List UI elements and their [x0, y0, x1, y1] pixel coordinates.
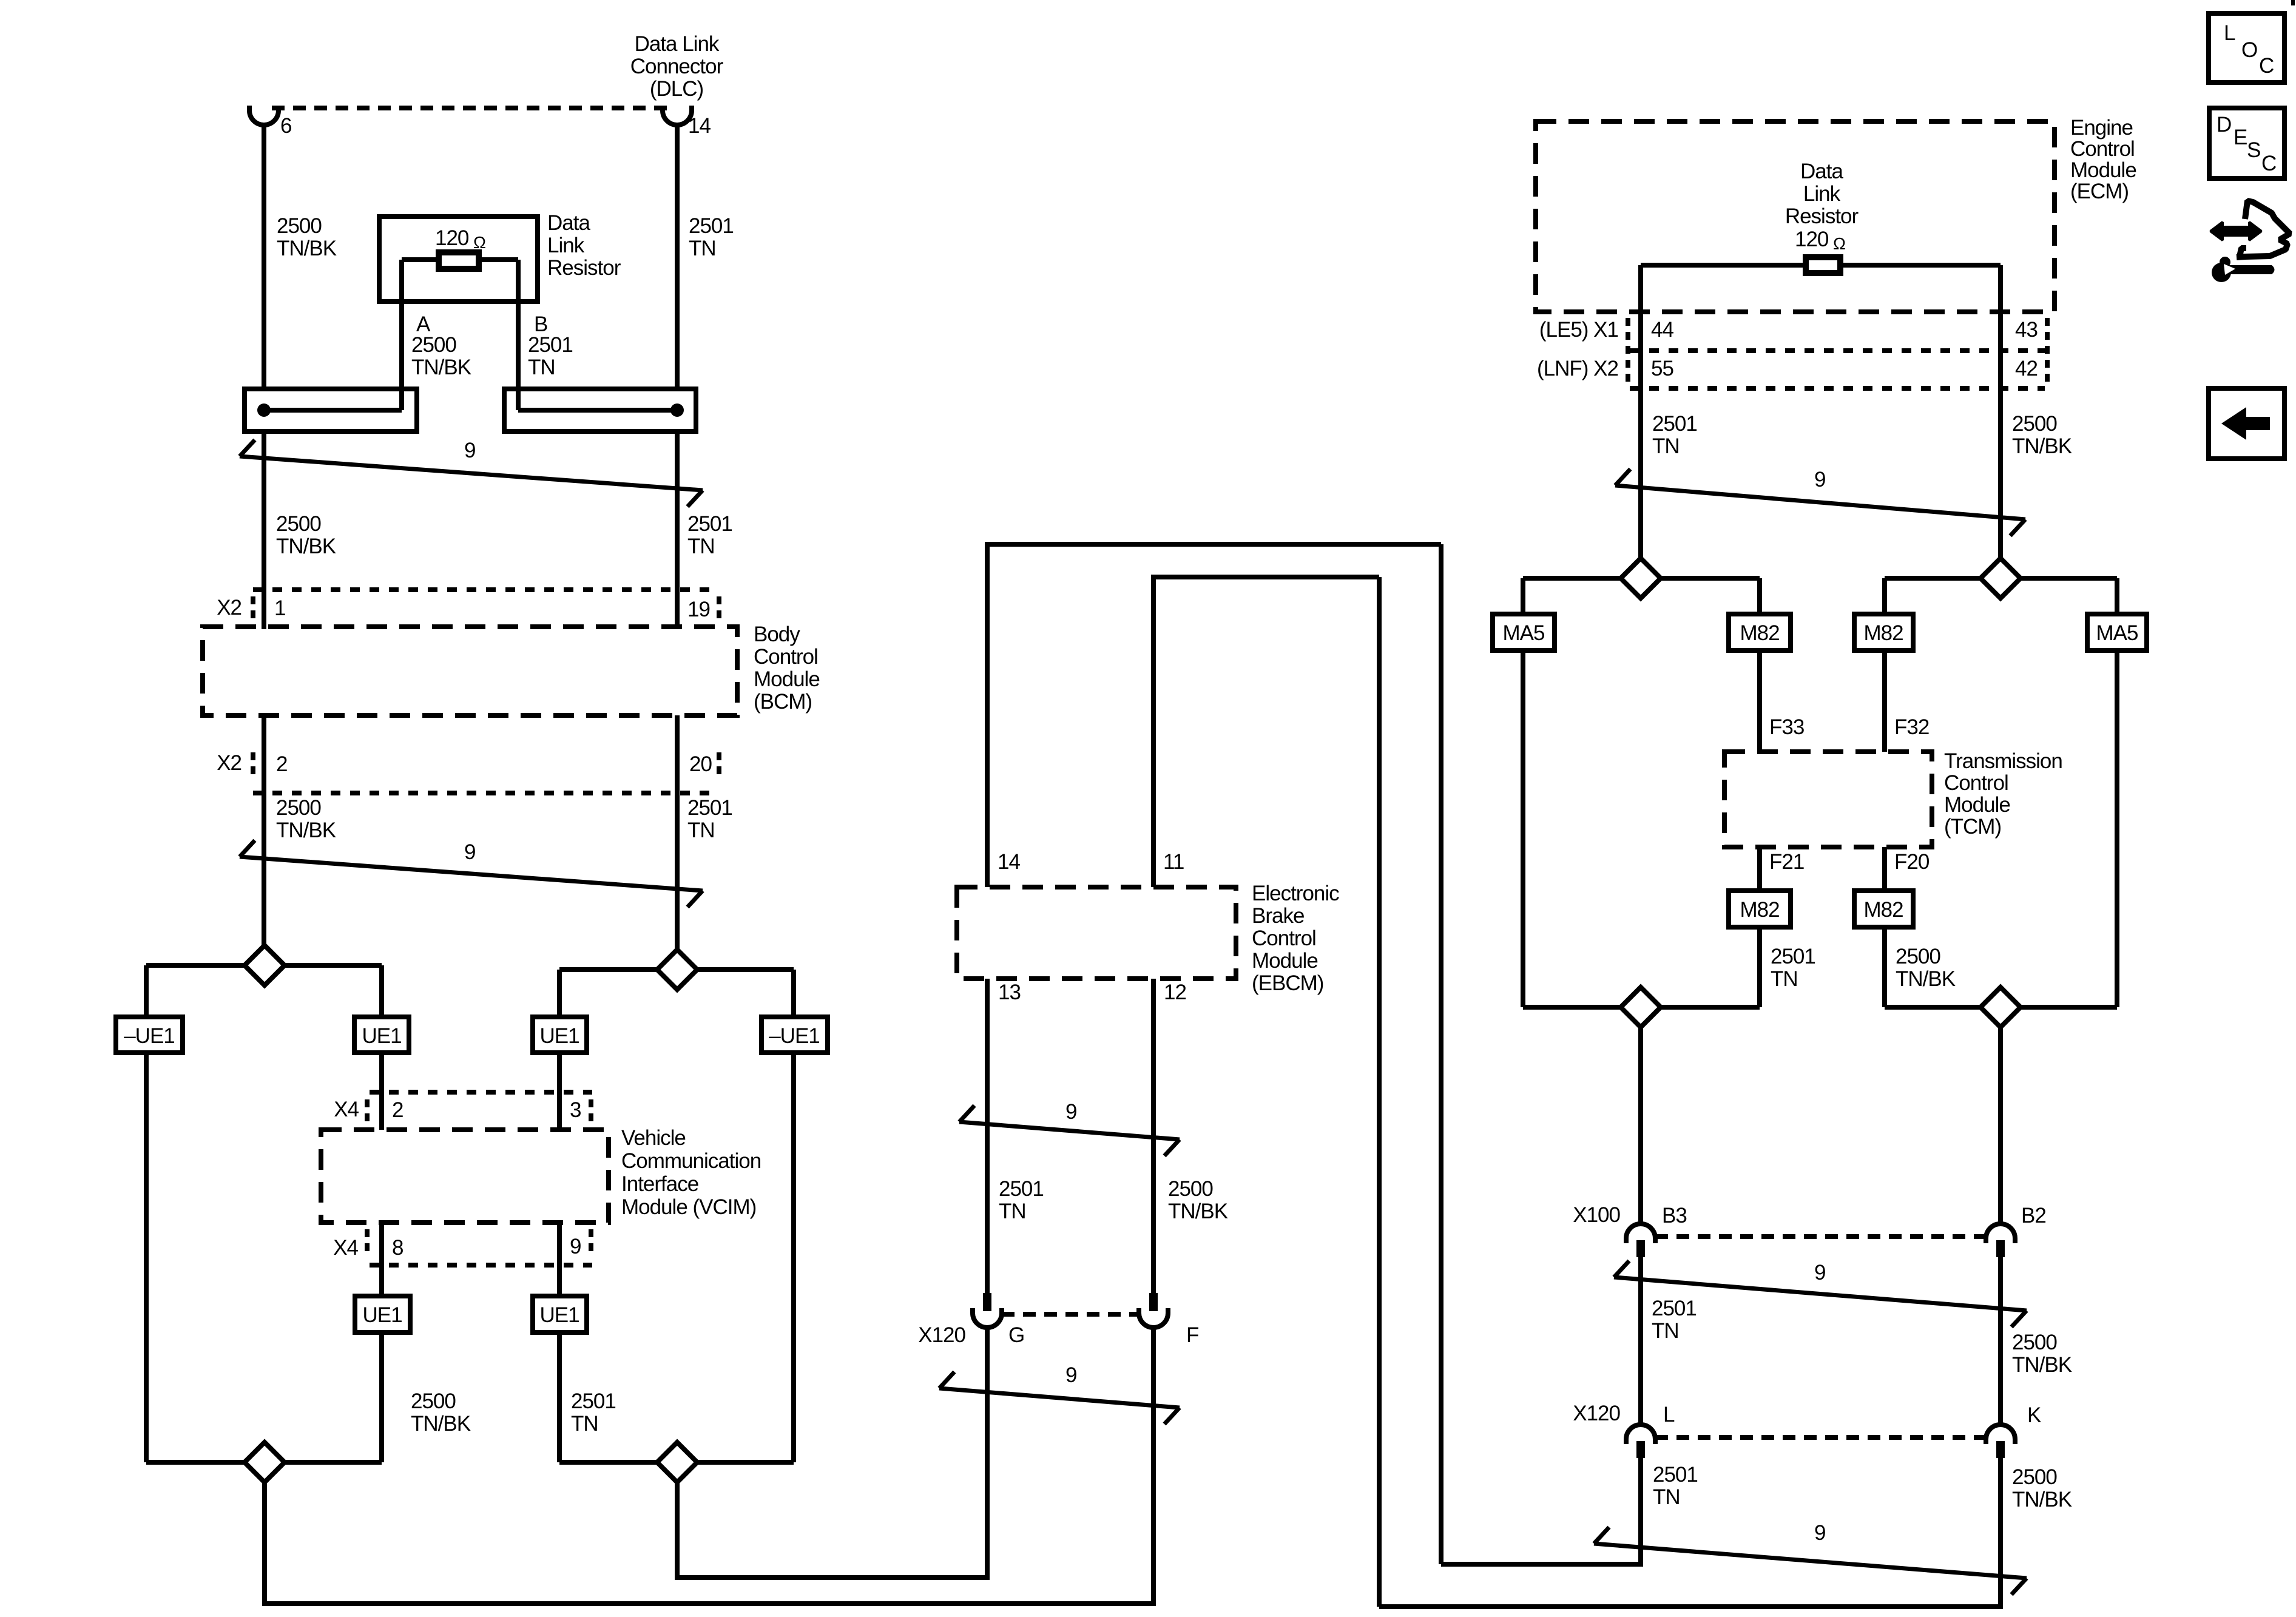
icon wrench and arrow [2237, 201, 2290, 257]
svg-text:9: 9 [1814, 1521, 1825, 1545]
twisted pair mark 9 X100 [1614, 1277, 2027, 1311]
wire bus 2500 TN/BK bottom right [1379, 1604, 2003, 1609]
svg-text:TN: TN [1771, 967, 1798, 991]
svg-text:Communication: Communication [621, 1149, 761, 1173]
svg-text:14: 14 [688, 114, 711, 138]
VCIM connector X4 row 1 dotted line [370, 1090, 592, 1095]
BCM connector X2 row 1 dotted line [253, 587, 719, 592]
wire -UE1 to lower bus left [144, 1053, 149, 1462]
svg-text:TN/BK: TN/BK [2012, 434, 2072, 458]
svg-text:2501: 2501 [687, 796, 732, 820]
wire MA5 to splice S8 [2115, 650, 2119, 1007]
connector UE1 box 3 [533, 1017, 587, 1053]
wire splice S8 arms [1885, 1005, 2117, 1010]
splice junction dot right [670, 403, 684, 417]
wire splice S8 stub down [1998, 1027, 2003, 1224]
svg-text:(LE5) X1: (LE5) X1 [1539, 318, 1618, 342]
svg-text:2501: 2501 [528, 333, 573, 357]
splice S6 diamond [1980, 558, 2021, 598]
wire MA5 to splice S7 [1521, 650, 1525, 1007]
svg-text:–UE1: –UE1 [124, 1024, 175, 1048]
svg-text:3: 3 [570, 1098, 581, 1122]
svg-text:TN/BK: TN/BK [411, 1412, 471, 1436]
resistor R 120 ohm element [439, 252, 479, 269]
wire UE1 to splice S4 [557, 1332, 562, 1462]
connector X100 B3 socket arc [1626, 1224, 1655, 1243]
splice S4 diamond [657, 1442, 697, 1482]
page corner mark [2291, 0, 2295, 5]
svg-text:–UE1: –UE1 [769, 1024, 820, 1048]
data link resistor box [379, 217, 538, 302]
svg-text:UE1: UE1 [362, 1024, 401, 1048]
svg-text:20: 20 [689, 752, 712, 776]
svg-text:Module (VCIM): Module (VCIM) [621, 1195, 756, 1219]
ECM connector X1 row dotted line [1630, 348, 2045, 353]
twisted pair mark 9 EBCM upper [959, 1122, 1180, 1139]
module BCM dashed box [203, 627, 737, 715]
splice pack right housing [504, 389, 696, 431]
svg-text:X120: X120 [918, 1323, 965, 1347]
svg-text:2500: 2500 [1168, 1177, 1213, 1201]
svg-text:E: E [2234, 126, 2247, 149]
wire splice S3 arms [146, 1460, 382, 1465]
connector X120 K socket arc [1986, 1425, 2015, 1444]
svg-text:TN/BK: TN/BK [277, 237, 337, 260]
svg-text:Module: Module [754, 667, 820, 691]
svg-text:TN/BK: TN/BK [276, 819, 336, 842]
connector X120 K terminal [1996, 1441, 2005, 1458]
BCM pin 20 wire stub [675, 715, 680, 793]
icon back arrow box [2209, 388, 2284, 459]
svg-text:L: L [1663, 1403, 1675, 1426]
resistor wire right [478, 257, 518, 262]
VCIM X4 row2 bracket right [589, 1229, 593, 1256]
svg-text:TN: TN [689, 237, 716, 260]
connector M82 box 1 [1729, 614, 1791, 650]
svg-text:L: L [2224, 21, 2235, 45]
svg-text:TN/BK: TN/BK [276, 535, 336, 558]
splice S2 diamond [657, 950, 697, 990]
svg-text:(TCM): (TCM) [1944, 815, 2001, 839]
svg-text:14: 14 [998, 850, 1020, 874]
VCIM X4 row1 bracket left [365, 1099, 370, 1125]
svg-text:(LNF) X2: (LNF) X2 [1537, 357, 1618, 380]
wire 2501 TN loop to X120 L leg [1441, 1562, 1643, 1567]
svg-text:TN: TN [687, 535, 715, 558]
svg-text:43: 43 [2015, 318, 2038, 342]
connector UE1 box 2 [354, 1017, 409, 1053]
svg-text:F32: F32 [1894, 715, 1929, 739]
connector X120 G dashed link [1002, 1312, 1139, 1317]
splice S8 diamond [1980, 987, 2021, 1027]
svg-text:2500: 2500 [411, 1389, 456, 1413]
svg-text:42: 42 [2015, 357, 2038, 380]
twisted pair mark 9 EBCM lower [939, 1388, 1180, 1408]
svg-text:Module: Module [1252, 949, 1318, 973]
wire 2501 TN M82 to splice S7 [1757, 927, 1762, 1007]
svg-text:2501: 2501 [689, 214, 734, 238]
connector MA5 box 1 [1493, 614, 1555, 650]
svg-text:(ECM): (ECM) [2070, 180, 2129, 203]
svg-text:Data: Data [547, 211, 590, 235]
svg-text:2501: 2501 [687, 512, 732, 536]
svg-text:M82: M82 [1863, 621, 1903, 645]
icon LOC box [2209, 13, 2284, 83]
BCM X2 row1 bracket right [717, 596, 721, 622]
svg-text:9: 9 [1065, 1100, 1076, 1124]
svg-text:(DLC): (DLC) [650, 77, 703, 101]
svg-text:13: 13 [998, 981, 1021, 1004]
wire 2501 TN EBCM pin 14 loop [985, 544, 990, 887]
svg-text:2500: 2500 [276, 512, 321, 536]
wire 2500 TN/BK EBCM pin 11 loop [1151, 577, 1156, 887]
svg-text:2500: 2500 [2012, 412, 2057, 436]
wire 2500 TN/BK M82 to splice S8 [1882, 927, 1887, 1007]
connector X120 G socket arc [973, 1308, 1002, 1328]
svg-text:2500: 2500 [411, 333, 456, 357]
wire 2500 TN/BK BCM to splice S1 [262, 793, 266, 945]
wire 2500 TN/BK ECM pin 43/42 [1998, 265, 2003, 578]
module TCM dashed box [1724, 752, 1932, 847]
svg-text:2: 2 [276, 752, 287, 776]
connector X100 B3 terminal [1636, 1240, 1645, 1257]
svg-text:120: 120 [435, 226, 469, 250]
svg-text:(BCM): (BCM) [754, 690, 812, 714]
wire 2500 TN/BK K down to bus [1998, 1458, 2003, 1607]
ECM bracket right [2045, 318, 2050, 385]
svg-text:F21: F21 [1769, 850, 1804, 874]
svg-text:2500: 2500 [2012, 1465, 2057, 1489]
svg-text:C: C [2259, 54, 2274, 78]
svg-text:Link: Link [547, 234, 585, 257]
svg-text:B3: B3 [1662, 1204, 1687, 1227]
svg-text:1: 1 [274, 596, 285, 620]
splice S1 diamond [245, 945, 285, 985]
svg-text:X2: X2 [217, 751, 241, 775]
connector X100 dashed link [1655, 1234, 1986, 1239]
svg-text:Interface: Interface [621, 1172, 698, 1196]
wire 2501 TN EBCM pin 13 down [985, 979, 990, 1293]
svg-text:F20: F20 [1894, 850, 1930, 874]
svg-text:12: 12 [1164, 981, 1186, 1004]
wire splice S6 arms [1885, 576, 2117, 581]
ECM bracket left [1626, 318, 1630, 385]
wire resistor pin A [399, 260, 404, 410]
connector M82 box 4 [1854, 891, 1913, 927]
connector X120 L socket arc [1626, 1425, 1655, 1444]
connector M82 box 3 [1729, 891, 1791, 927]
wire splice S2 arms [559, 967, 794, 972]
wire 2501 TN splice to BCM pin 19 [675, 431, 680, 629]
wire M82 to TCM pin F32 [1882, 650, 1887, 752]
connector -UE1 box 1 [116, 1017, 183, 1053]
wire resistor pin B [516, 260, 521, 410]
wire 2501 TN BCM to splice S2 [675, 793, 680, 950]
svg-text:TN/BK: TN/BK [2012, 1353, 2072, 1377]
svg-text:X120: X120 [1573, 1402, 1620, 1425]
svg-text:9: 9 [464, 439, 475, 462]
svg-text:Ω: Ω [1833, 234, 1845, 253]
svg-text:2500: 2500 [1896, 945, 1940, 968]
svg-text:TN: TN [571, 1412, 598, 1436]
svg-text:TN/BK: TN/BK [411, 356, 471, 379]
svg-text:Link: Link [1803, 182, 1841, 206]
splice S5 diamond [1621, 558, 1661, 598]
svg-text:2500: 2500 [277, 214, 322, 238]
connector M82 box 2 [1854, 614, 1913, 650]
svg-text:2501: 2501 [999, 1177, 1044, 1201]
wire UE1 to VCIM pin 3 [557, 1053, 562, 1130]
svg-text:Module: Module [1944, 793, 2010, 817]
svg-text:TN/BK: TN/BK [2012, 1488, 2072, 1511]
svg-text:X4: X4 [333, 1236, 358, 1260]
svg-text:2500: 2500 [2012, 1331, 2057, 1354]
VCIM pin 8 wire stub [379, 1223, 384, 1296]
wire TCM pin F21 to M82 [1757, 847, 1762, 891]
svg-text:2501: 2501 [1771, 945, 1815, 968]
svg-text:44: 44 [1651, 318, 1673, 342]
ECM connector X2 row dotted line [1630, 386, 2045, 391]
svg-text:D: D [2217, 113, 2231, 137]
svg-text:X100: X100 [1573, 1203, 1620, 1227]
splice pack left bus bar [264, 408, 402, 413]
svg-text:G: G [1008, 1323, 1024, 1347]
svg-text:9: 9 [1814, 468, 1825, 491]
svg-text:Data: Data [1800, 160, 1843, 183]
wire splice S7 stub down [1638, 1027, 1643, 1224]
connector X120 G terminal [983, 1293, 991, 1311]
svg-text:2501: 2501 [571, 1389, 616, 1413]
ECM resistor wire [1641, 263, 2001, 268]
wire 2501 TN ECM pin 44/55 [1638, 265, 1643, 578]
connector -UE1 box 4 [761, 1017, 828, 1053]
DLC pin 14 socket arc [663, 106, 692, 125]
wire 2500 TN/BK B2 down [1998, 1257, 2003, 1424]
twisted pair mark 9 bottom right [1594, 1544, 2027, 1578]
splice pack left housing [245, 389, 417, 431]
connector X100 B2 terminal [1996, 1240, 2005, 1257]
wire UE1 to VCIM pin 2 [379, 1053, 384, 1130]
svg-text:2: 2 [392, 1098, 403, 1122]
splice junction dot left [257, 403, 271, 417]
svg-text:TN: TN [999, 1200, 1026, 1223]
twisted pair mark 9 ECM [1615, 485, 2025, 519]
connector UE1 box 5 [355, 1296, 410, 1332]
icon DESC box [2209, 108, 2284, 178]
svg-text:Vehicle: Vehicle [621, 1126, 686, 1150]
BCM X2 row2 bracket right [717, 752, 721, 779]
svg-text:C: C [2261, 152, 2276, 175]
svg-text:S: S [2247, 138, 2260, 162]
module ECM dashed box [1536, 121, 2055, 312]
svg-text:Resistor: Resistor [547, 256, 621, 280]
svg-text:9: 9 [1814, 1261, 1825, 1284]
svg-text:Module: Module [2070, 158, 2136, 182]
connector X100 B2 socket arc [1986, 1224, 2015, 1243]
svg-text:TN: TN [528, 356, 555, 379]
wire 2500 TN/BK X120 F to bottom [1151, 1328, 1156, 1606]
wire 2501 TN S4 to X120 G leg [675, 1575, 990, 1580]
svg-text:9: 9 [464, 840, 475, 864]
twisted pair mark 9 top-left [240, 456, 703, 490]
svg-text:Connector: Connector [630, 55, 724, 78]
svg-text:11: 11 [1163, 850, 1184, 874]
splice S7 diamond [1621, 987, 1661, 1027]
svg-text:Engine: Engine [2070, 116, 2133, 140]
svg-text:Resistor: Resistor [1785, 204, 1859, 228]
splice pack right bus bar [518, 408, 677, 413]
svg-text:Control: Control [2070, 137, 2135, 161]
svg-text:Ω: Ω [473, 233, 485, 252]
VCIM X4 row2 bracket left [365, 1229, 370, 1256]
module EBCM dashed box [957, 887, 1236, 979]
BCM X2 row2 bracket left [251, 752, 255, 779]
svg-text:M82: M82 [1740, 898, 1779, 922]
svg-text:Transmission: Transmission [1944, 749, 2062, 773]
svg-text:8: 8 [392, 1236, 403, 1260]
connector MA5 box 2 [2087, 614, 2147, 650]
twisted pair mark 9 mid-left [240, 857, 703, 891]
svg-text:O: O [2241, 38, 2257, 62]
svg-text:MA5: MA5 [1503, 621, 1545, 645]
svg-text:55: 55 [1651, 357, 1673, 380]
wire splice S3 stub down [262, 1482, 267, 1606]
svg-text:TN: TN [1652, 434, 1680, 458]
wire TCM pin F20 to M82 [1882, 847, 1887, 891]
svg-text:6: 6 [280, 114, 291, 138]
svg-text:Control: Control [754, 645, 818, 669]
svg-text:UE1: UE1 [539, 1024, 579, 1048]
VCIM connector X4 row 2 dotted line [370, 1263, 592, 1268]
svg-text:UE1: UE1 [362, 1303, 402, 1327]
svg-text:9: 9 [1065, 1363, 1076, 1387]
svg-text:Electronic: Electronic [1252, 882, 1339, 905]
wire splice S1 arms [146, 963, 382, 968]
svg-text:Brake: Brake [1252, 904, 1304, 928]
svg-text:Body: Body [754, 623, 800, 646]
wire 2500 TN/BK from DLC pin 6 [262, 125, 266, 391]
svg-text:Control: Control [1944, 771, 2008, 795]
svg-text:B2: B2 [2021, 1204, 2046, 1227]
wire UE1 to splice S3 [379, 1332, 384, 1462]
VCIM X4 row1 bracket right [589, 1099, 593, 1125]
svg-text:9: 9 [570, 1235, 581, 1258]
svg-text:TN: TN [1652, 1319, 1679, 1343]
wire 2501 TN B3 down [1638, 1257, 1643, 1424]
wire splice S5 arms [1523, 576, 1760, 581]
svg-text:X4: X4 [334, 1098, 359, 1121]
svg-text:2501: 2501 [1652, 1297, 1697, 1320]
svg-text:M82: M82 [1740, 621, 1779, 645]
wire bus 2500 TN/BK bottom left [262, 1601, 1155, 1606]
connector X120 F socket arc [1139, 1308, 1168, 1328]
DLC pin 6 socket arc [249, 106, 279, 125]
resistor R 120 ohm ECM element [1806, 257, 1840, 273]
svg-text:Control: Control [1252, 927, 1316, 950]
connector DLC dashed body [272, 106, 669, 110]
connector X120 L terminal [1636, 1441, 1645, 1458]
wire 2501 TN X120 G to bottom [985, 1328, 990, 1578]
BCM connector X2 row 2 dotted line [253, 791, 719, 795]
svg-text:Data Link: Data Link [635, 32, 720, 56]
svg-text:F33: F33 [1769, 715, 1804, 739]
svg-text:M82: M82 [1863, 898, 1903, 922]
connector X120 LK dashed link [1655, 1435, 1986, 1440]
svg-text:UE1: UE1 [539, 1303, 579, 1327]
wire 2500 TN/BK splice to BCM pin 1 [262, 431, 266, 629]
connector X120 F terminal [1149, 1293, 1158, 1311]
svg-text:X2: X2 [217, 596, 241, 619]
BCM pin 2 wire stub [262, 715, 266, 793]
svg-text:TN: TN [687, 819, 715, 842]
svg-text:F: F [1186, 1323, 1198, 1347]
wire 2500 TN/BK EBCM pin 12 down [1151, 979, 1156, 1293]
connector UE1 box 6 [533, 1296, 587, 1332]
svg-text:2501: 2501 [1652, 412, 1697, 436]
module VCIM dashed box [321, 1130, 609, 1223]
svg-text:TN/BK: TN/BK [1896, 967, 1956, 991]
wire 2501 TN from DLC pin 14 [675, 125, 680, 391]
wire -UE1 to lower bus right [791, 1053, 796, 1462]
wire splice S7 arms [1523, 1005, 1760, 1010]
svg-text:2501: 2501 [1653, 1463, 1698, 1487]
svg-text:19: 19 [687, 598, 710, 621]
wire M82 to TCM pin F33 [1757, 650, 1762, 752]
BCM X2 row1 bracket left [251, 596, 255, 622]
wire 2501 TN L down to loop [1638, 1458, 1643, 1567]
VCIM pin 9 wire stub [557, 1223, 562, 1296]
svg-text:TN/BK: TN/BK [1168, 1200, 1228, 1223]
svg-text:120: 120 [1795, 228, 1829, 251]
svg-text:TN: TN [1653, 1485, 1680, 1509]
resistor wire left [402, 257, 439, 262]
svg-text:MA5: MA5 [2096, 621, 2138, 645]
wire splice S4 arms [559, 1460, 794, 1465]
svg-text:K: K [2027, 1403, 2041, 1427]
wire splice S4 stub down [675, 1482, 680, 1580]
svg-text:(EBCM): (EBCM) [1252, 971, 1323, 995]
svg-text:2500: 2500 [276, 796, 321, 820]
splice S3 diamond [245, 1442, 285, 1482]
